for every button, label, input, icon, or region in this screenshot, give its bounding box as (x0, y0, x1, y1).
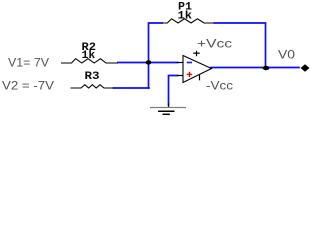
svg-text:+Vcc: +Vcc (197, 37, 232, 51)
svg-text:R3: R3 (85, 71, 100, 83)
svg-text:V2 = -7V: V2 = -7V (2, 79, 54, 93)
svg-text:-Vcc: -Vcc (206, 79, 233, 93)
svg-text:1k: 1k (178, 11, 193, 23)
svg-text:V0: V0 (278, 48, 295, 62)
svg-text:1k: 1k (82, 50, 96, 62)
svg-text:V1= 7V: V1= 7V (8, 56, 49, 70)
